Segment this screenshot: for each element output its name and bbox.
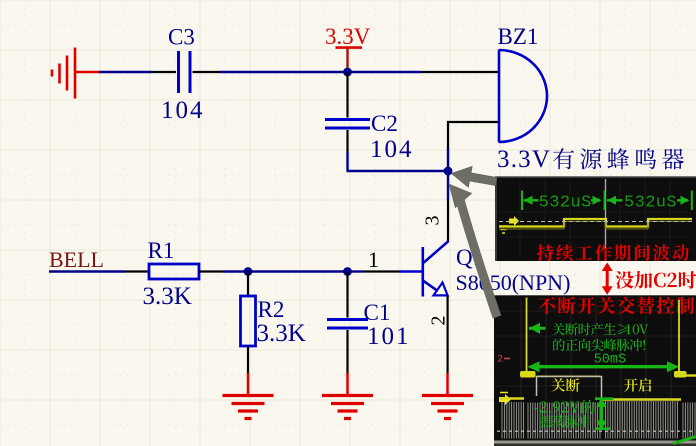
waveform: baseline on period bbox=[603, 398, 681, 401]
wire: left ground to C3 bbox=[99, 71, 151, 73]
annotation: -2.92V oscillation (green) line 1 bbox=[534, 400, 594, 414]
annotation: oscillation pulse (green) line 2 bbox=[540, 415, 589, 428]
pin: R1 right bbox=[199, 270, 223, 272]
cursor bars (green) bbox=[521, 191, 523, 211]
Q1 emitter arrow bbox=[434, 283, 448, 296]
Q1 collector stroke bbox=[424, 241, 449, 262]
buzzer BZ1 bbox=[499, 50, 547, 143]
wire: to ground (red) bbox=[346, 373, 349, 396]
oscillogram 2 bottom bezel bbox=[494, 441, 696, 446]
waveform: left spike bbox=[526, 298, 528, 375]
svg-text:C3: C3 bbox=[168, 25, 195, 50]
ground (C1) bbox=[322, 396, 373, 419]
pin/wire: C1 top bbox=[346, 272, 348, 318]
green arrow (spike pointer) bbox=[529, 323, 546, 334]
annotation: fluctuation during continuous operation (red) bbox=[537, 244, 689, 261]
wire: to ground (red) bbox=[247, 373, 250, 396]
dashed reference line (scope 1) bbox=[499, 221, 692, 223]
svg-text:3.3K: 3.3K bbox=[257, 320, 306, 347]
label: on period (yellow) bbox=[624, 378, 651, 392]
capacitor C3 bbox=[179, 51, 191, 93]
green diagonal (bottom-right, clipped) bbox=[673, 437, 696, 444]
svg-text:104: 104 bbox=[161, 97, 205, 124]
wire: to ground (red) bbox=[446, 373, 449, 396]
svg-text:104: 104 bbox=[370, 136, 414, 163]
waveform: plateau outline bbox=[537, 377, 602, 400]
wire segment (black) bbox=[363, 270, 399, 272]
annotation: continuous on-off alternating control (red) bbox=[538, 297, 694, 314]
waveform trace (scope 1) bbox=[499, 219, 692, 227]
power port 3.3V bbox=[325, 24, 371, 72]
pin: R2 top bbox=[247, 272, 249, 297]
pin/wire: node up to BZ1 pin 2 bbox=[447, 147, 449, 171]
measurement arrow 50mS span bbox=[528, 361, 680, 372]
waveform: right spike bbox=[678, 300, 680, 374]
pin/wire: 3.3V node down to C2 bbox=[346, 72, 348, 118]
pin 3 (collector) bbox=[447, 200, 449, 242]
gray arrow 2 (long) bbox=[459, 196, 497, 317]
resistor R2 bbox=[241, 296, 256, 346]
wire: R2 node to C1 node bbox=[248, 270, 348, 272]
junction: collector node bbox=[444, 167, 453, 176]
vertical measure arrow (oscillation amplitude) bbox=[595, 398, 614, 431]
red double arrow (C2 comparison) bbox=[602, 263, 613, 295]
ground (R2) bbox=[223, 396, 274, 419]
junction: 3.3V node bbox=[343, 68, 352, 77]
pin: C3 right pin bbox=[193, 71, 221, 73]
annotation: >=10V positive spike when switching off bbox=[552, 323, 648, 335]
pin/wire: R2 bottom bbox=[247, 346, 249, 373]
channel marker (scope 1) bbox=[499, 216, 519, 233]
svg-text:3.3V: 3.3V bbox=[325, 24, 371, 49]
pin: R1 left bbox=[125, 270, 149, 272]
capacitor C2 bbox=[325, 120, 370, 129]
pin 2 (emitter) bbox=[447, 296, 449, 373]
wire: C2 to collector node bbox=[346, 152, 348, 171]
svg-text:2: 2 bbox=[498, 354, 503, 365]
pin 1 (base) bbox=[399, 270, 422, 272]
svg-text:101: 101 bbox=[367, 323, 411, 350]
pin: C2 bottom bbox=[346, 130, 348, 152]
oscillogram 1 center divider bbox=[605, 179, 607, 261]
wire: C1 node toward Q1 base bbox=[348, 270, 364, 272]
oscillation band (far left) bbox=[502, 402, 524, 439]
measurement arrows 532uS bbox=[524, 196, 690, 205]
junction: C1 node bbox=[343, 267, 352, 276]
oscillation band (off period) bbox=[528, 403, 600, 439]
svg-text:532uS: 532uS bbox=[539, 194, 592, 213]
label: off period (yellow) bbox=[551, 378, 579, 391]
Q1 emitter stroke bbox=[423, 281, 437, 291]
svg-text:2: 2 bbox=[428, 316, 450, 326]
pin: C3 left pin bbox=[151, 71, 176, 73]
svg-text:R2: R2 bbox=[258, 297, 285, 322]
gray arrow 1 (short) bbox=[452, 167, 497, 188]
transistor Q1 base bar bbox=[421, 247, 424, 297]
svg-text:C2: C2 bbox=[371, 111, 398, 136]
pin: BZ1 pin 1 bbox=[421, 71, 498, 73]
svg-text:532uS: 532uS bbox=[624, 194, 677, 213]
waveform: right top blob bbox=[674, 371, 687, 378]
svg-text:3.3V: 3.3V bbox=[497, 146, 551, 173]
oscillogram 1 background bbox=[495, 177, 696, 262]
svg-text:3.3K: 3.3K bbox=[143, 283, 192, 310]
svg-text:S8050(NPN): S8050(NPN) bbox=[456, 270, 571, 295]
channel marker (scope 2) bbox=[499, 393, 511, 406]
svg-text:BZ1: BZ1 bbox=[498, 24, 539, 49]
capacitor C1 bbox=[327, 320, 368, 329]
ground (Q1 emitter) bbox=[422, 396, 473, 419]
junction: R2 node bbox=[244, 267, 253, 276]
resistor R1 bbox=[149, 264, 199, 279]
waveform: left top blob bbox=[520, 371, 536, 378]
oscillation band (far right) bbox=[683, 403, 695, 439]
wire: node to Q1 collector bbox=[447, 171, 449, 200]
oscillogram 2 background bbox=[494, 295, 696, 440]
svg-text:1: 1 bbox=[368, 247, 379, 272]
svg-text:R1: R1 bbox=[148, 238, 175, 263]
waveform: baseline left of spike bbox=[499, 397, 524, 399]
svg-text:3: 3 bbox=[422, 216, 444, 226]
svg-text:C1: C1 bbox=[364, 300, 391, 325]
dashed bottom line (scope 2) bbox=[497, 430, 694, 432]
wire: junction to buzzer bbox=[348, 71, 422, 73]
oscillation band (on period) bbox=[606, 401, 678, 439]
wire: R1 to R2 node bbox=[223, 270, 248, 272]
wire: BELL to R1 bbox=[49, 270, 125, 272]
ground (left, rotated earth symbol) bbox=[52, 48, 100, 99]
annotation: without C2 (red) bbox=[616, 271, 696, 289]
pin/wire: C1 bottom bbox=[346, 330, 348, 373]
svg-text:BELL: BELL bbox=[49, 247, 104, 272]
wire: C3 to 3.3V junction bbox=[220, 71, 348, 73]
